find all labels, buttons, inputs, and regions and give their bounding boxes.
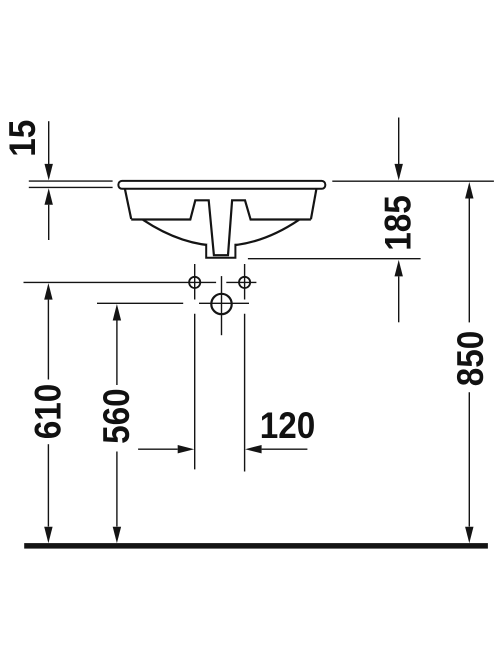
horizontal centerline A (through small holes / 610 reference) <box>24 281 217 283</box>
dimension 120 right lead line <box>262 448 308 450</box>
dimension 610 top arrow (up) <box>44 283 52 300</box>
dimension 850 top arrow (up) <box>465 182 473 199</box>
drain outlet rectangle <box>206 244 235 258</box>
svg-text:185: 185 <box>378 195 419 251</box>
dimension 610 line lower segment <box>47 444 49 526</box>
dimension 120 right arrow (left) <box>245 445 262 453</box>
label 850 <box>450 331 491 387</box>
dimension 15 lower arrow (up) <box>45 188 53 205</box>
dimension 560 line upper segment <box>116 321 118 386</box>
dimension 560 line lower segment <box>116 452 118 527</box>
floor line <box>24 543 488 549</box>
dimension 185 upper lead line <box>398 118 400 165</box>
label 185 <box>378 195 419 251</box>
basin right wall <box>311 189 317 219</box>
vertical centerline center (through large hole) <box>221 276 223 335</box>
svg-text:610: 610 <box>28 384 69 440</box>
basin rim <box>118 181 325 189</box>
counter reference line (right, top of 850/185) <box>332 180 494 182</box>
dimension 850 line upper segment <box>468 199 470 323</box>
dimension 850 line lower segment <box>468 392 470 526</box>
tap hole left (small circle) <box>189 277 200 288</box>
tap hole right (small circle) <box>239 277 250 288</box>
dimension 15 upper lead line <box>48 121 50 164</box>
horizontal centerline B (through large hole / 560 reference) <box>97 302 183 304</box>
main hole (large circle) <box>211 294 231 314</box>
label 560 <box>96 388 137 444</box>
dimension 610 line upper segment <box>47 300 49 380</box>
dimension 15 lower lead line <box>48 205 50 240</box>
bowl underside curve <box>143 220 299 246</box>
label 120 <box>260 405 316 446</box>
svg-text:15: 15 <box>2 120 43 157</box>
dimension 610 bottom arrow (down) <box>44 527 52 544</box>
dimension 120 left arrow (right) <box>178 445 195 453</box>
svg-text:560: 560 <box>96 388 137 444</box>
vertical centerline left (through left hole, 120 extension) <box>194 264 196 300</box>
svg-text:120: 120 <box>260 405 316 446</box>
label 15 <box>2 120 43 157</box>
dimension 560 top arrow (up) <box>113 304 121 321</box>
label 610 <box>28 384 69 440</box>
counter bottom line (left) <box>29 186 113 188</box>
dimension 185 upper arrow (down) <box>395 164 403 181</box>
dimension 560 bottom arrow (down) <box>113 527 121 544</box>
svg-text:850: 850 <box>450 331 491 387</box>
vertical centerline right (through right hole, 120 extension) <box>244 264 246 300</box>
dimension 185 lower arrow (up) <box>395 260 403 277</box>
dimension 850 bottom arrow (down) <box>465 527 473 544</box>
dimension 120 left lead line <box>138 448 178 450</box>
counter top line (left) <box>29 180 113 182</box>
dimension 185 bottom reference line (drain level) <box>248 258 421 260</box>
basin shelf and overflow funnel profile <box>131 200 311 255</box>
dimension 15 upper arrow (down) <box>45 164 53 181</box>
dimension 185 lower lead line <box>398 276 400 322</box>
basin left wall <box>125 189 131 219</box>
